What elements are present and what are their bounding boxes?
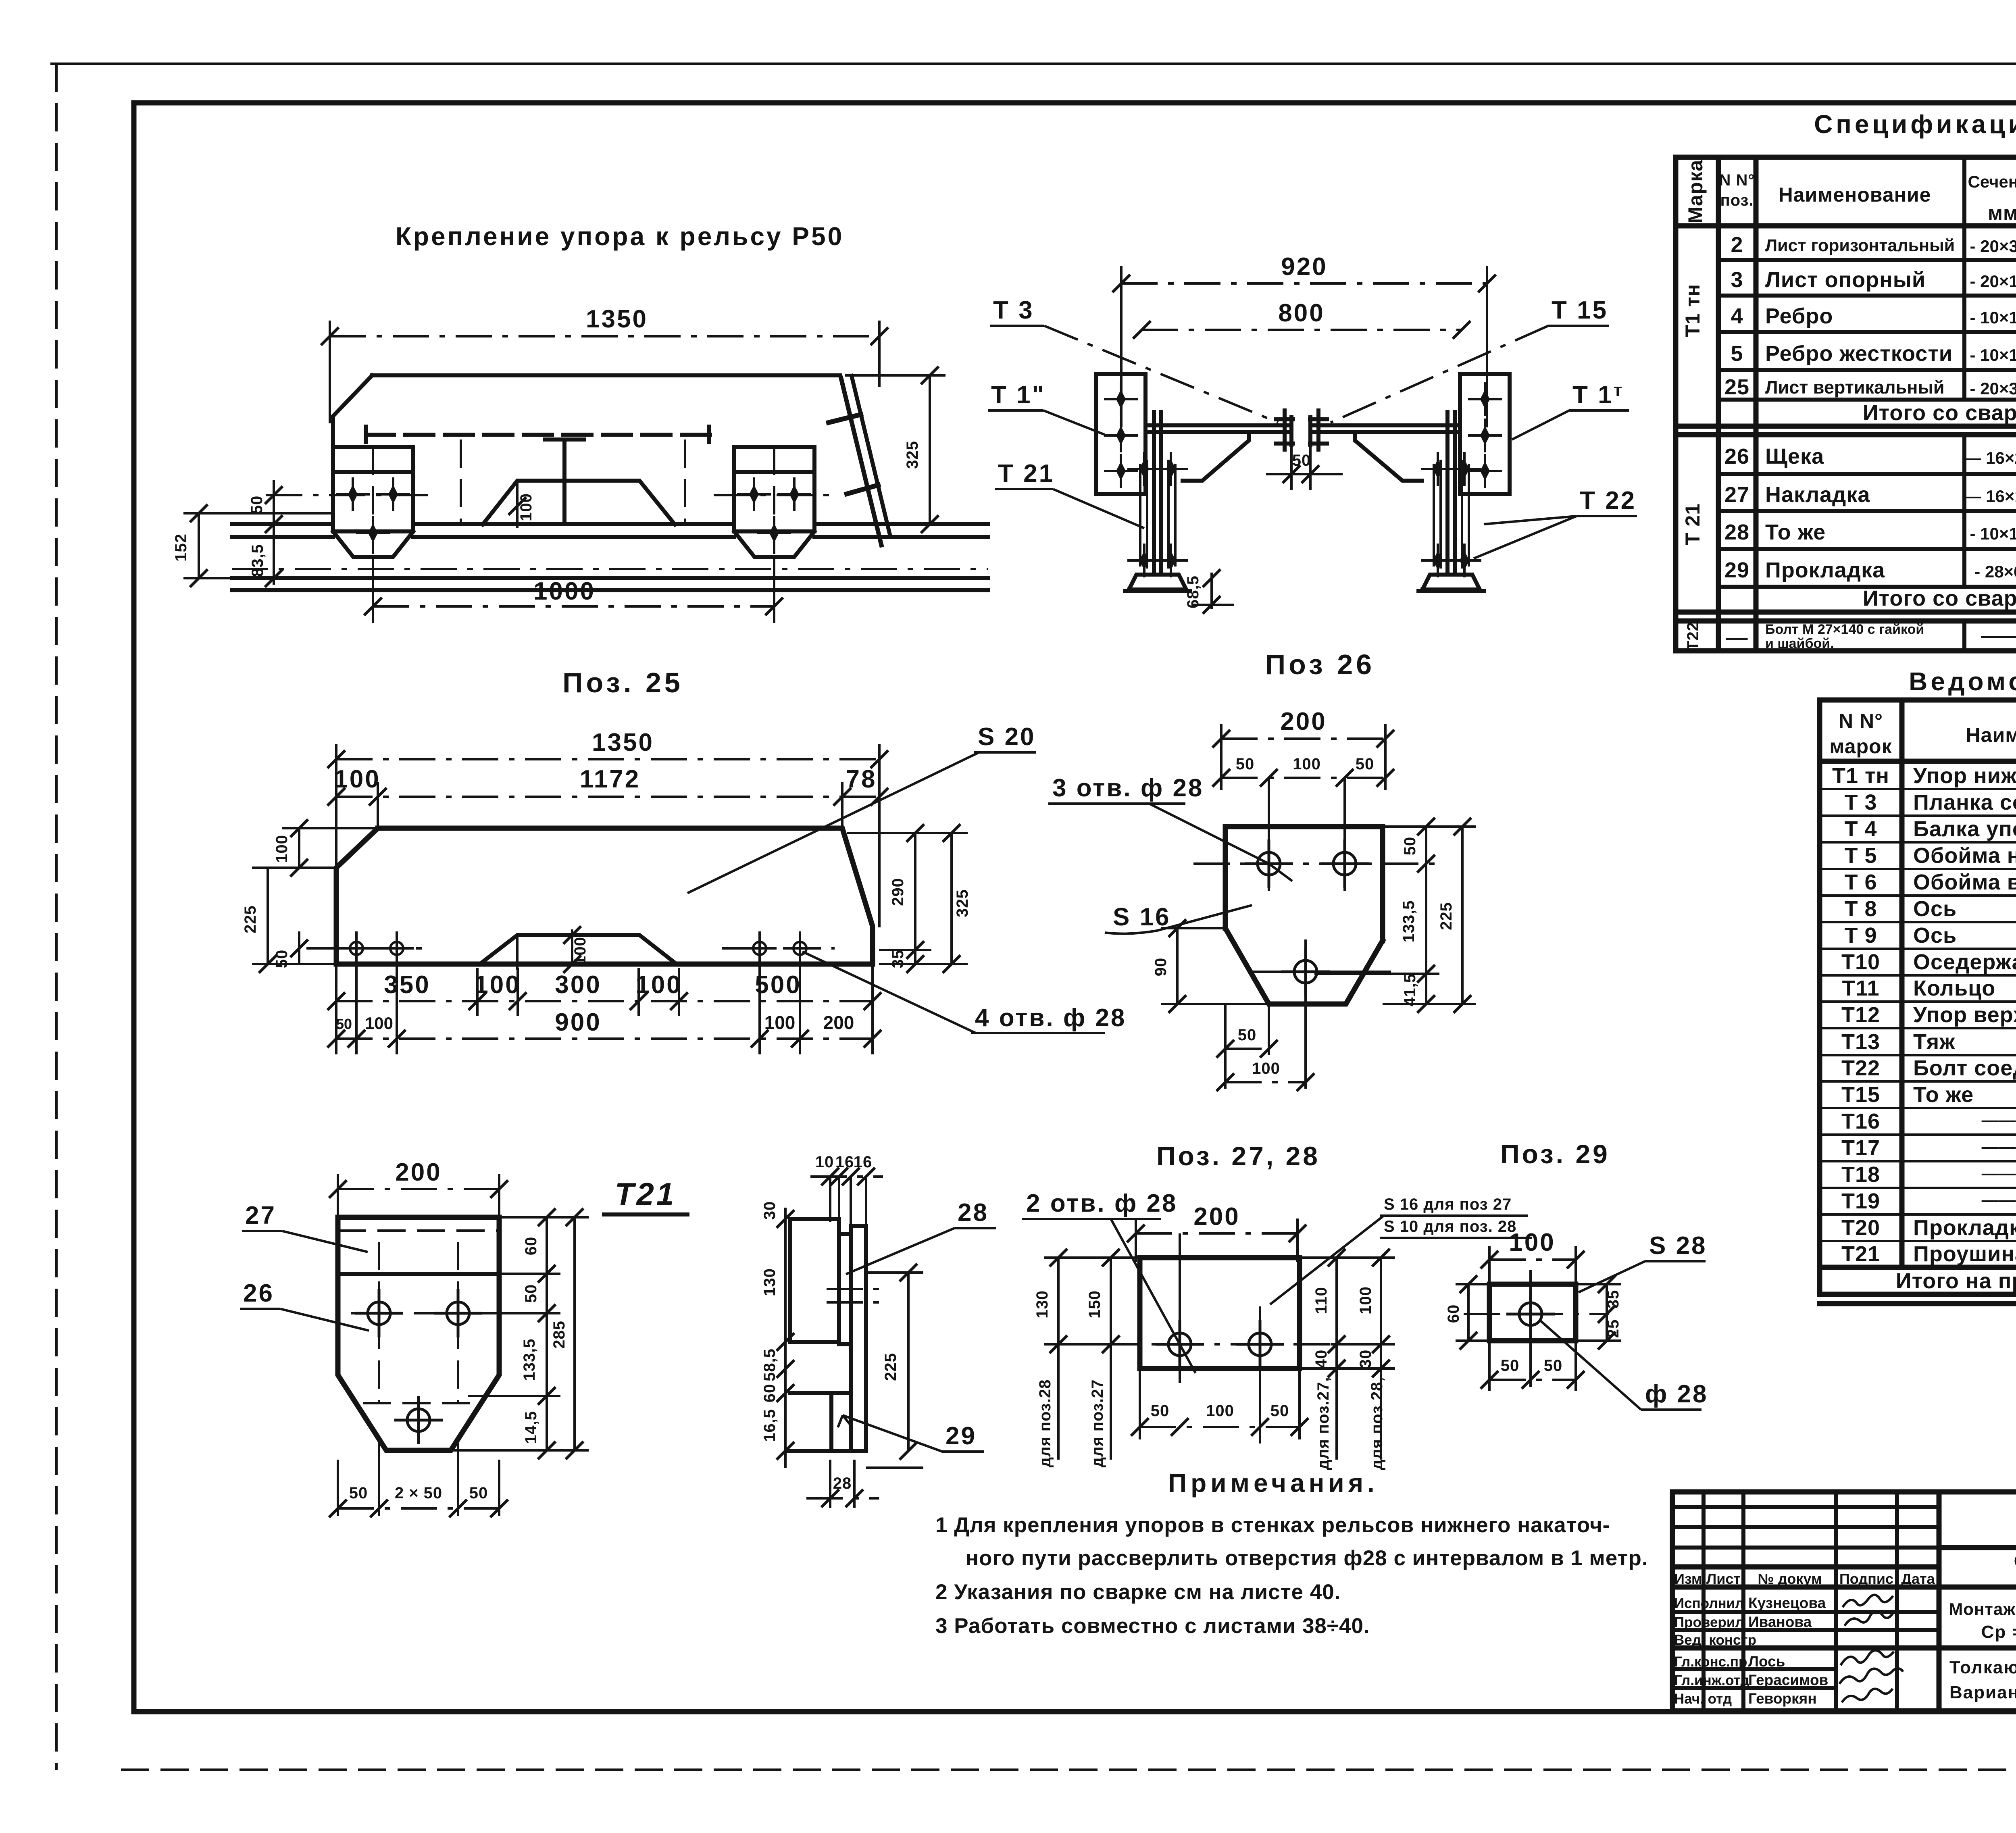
svg-text:225: 225 xyxy=(882,1353,900,1381)
svg-text:100: 100 xyxy=(474,971,521,999)
svg-text:Т 8: Т 8 xyxy=(1844,897,1877,921)
svg-text:Лось: Лось xyxy=(1748,1653,1785,1670)
leaders 27 26 xyxy=(240,1202,369,1331)
svg-text:Тяж: Тяж xyxy=(1913,1030,1955,1054)
svg-text:——— н ———: ——— н ——— xyxy=(1982,1190,2016,1209)
svg-text:Прокладка: Прокладка xyxy=(1765,558,1885,582)
left dim 90 xyxy=(1152,919,1269,1013)
svg-text:Ось: Ось xyxy=(1913,923,1957,948)
svg-text:— 16×150: — 16×150 xyxy=(1964,487,2016,506)
svg-text:Т 21: Т 21 xyxy=(1681,503,1704,545)
svg-text:Т 21: Т 21 xyxy=(998,460,1054,487)
svg-text:Накладка: Накладка xyxy=(1765,483,1870,507)
svg-text:800: 800 xyxy=(1278,299,1325,327)
svg-text:S 20: S 20 xyxy=(978,723,1036,751)
svg-text:Упор верхний: Упор верхний xyxy=(1913,1003,2016,1027)
dim 100 1172 78 xyxy=(327,765,888,831)
svg-text:30: 30 xyxy=(1357,1350,1375,1369)
svg-text:Т 4: Т 4 xyxy=(1844,817,1877,841)
svg-text:900: 900 xyxy=(555,1008,601,1036)
dim 920 xyxy=(1112,253,1496,427)
S20 label xyxy=(687,723,1036,893)
svg-text:28: 28 xyxy=(958,1199,989,1227)
right rail assembly xyxy=(1418,412,1484,591)
svg-text:Т20: Т20 xyxy=(1841,1216,1880,1240)
svg-text:Т 3: Т 3 xyxy=(993,296,1034,324)
svg-text:100: 100 xyxy=(334,765,380,793)
svg-text:Геворкян: Геворкян xyxy=(1748,1690,1817,1707)
svg-text:1 Для крепления упоров в стен: 1 Для крепления упоров в стенках рельсов… xyxy=(935,1513,1610,1537)
svg-text:Гл.инж.отд: Гл.инж.отд xyxy=(1674,1673,1749,1688)
svg-text:для поз.27,: для поз.27, xyxy=(1314,1377,1332,1470)
svg-text:3 отв. ф 28: 3 отв. ф 28 xyxy=(1052,774,1204,802)
drawing E: T21 xyxy=(240,1153,996,1517)
nakladka 27 side xyxy=(790,1219,839,1342)
svg-text:и шайбой.: и шайбой. xyxy=(1765,636,1834,651)
svg-text:Вед. констр: Вед. констр xyxy=(1674,1632,1756,1648)
dim 1350 xyxy=(327,729,888,927)
svg-text:83,5: 83,5 xyxy=(249,544,267,577)
svg-text:26: 26 xyxy=(1724,444,1749,469)
svg-text:мм: мм xyxy=(1988,202,2016,224)
svg-text:Т1 тн: Т1 тн xyxy=(1832,764,1889,788)
svg-text:—: — xyxy=(1726,626,1748,650)
drawing B: cross section xyxy=(0,0,0,0)
left dims xyxy=(784,1208,787,1468)
svg-text:Кузнецова: Кузнецова xyxy=(1748,1595,1826,1611)
svg-text:Лист опорный: Лист опорный xyxy=(1765,268,1926,292)
svg-text:Наименование: Наименование xyxy=(1966,724,2016,746)
svg-text:68,5: 68,5 xyxy=(1184,575,1202,608)
svg-text:S 10 для поз. 28: S 10 для поз. 28 xyxy=(1384,1218,1516,1235)
poz29 xyxy=(1445,1229,1708,1410)
notes xyxy=(935,1468,1648,1638)
tie plate T3 xyxy=(1145,425,1460,432)
svg-text:- 20×325: - 20×325 xyxy=(1970,379,2016,398)
svg-text:Т 6: Т 6 xyxy=(1844,870,1877,894)
left dims xyxy=(242,819,378,973)
spec table header text xyxy=(1684,160,2016,224)
svg-text:Планка соединительная: Планка соединительная xyxy=(1913,790,2016,814)
dim 50 center xyxy=(1266,452,1343,483)
svg-text:Лист горизонтальный: Лист горизонтальный xyxy=(1765,236,1955,255)
svg-text:50: 50 xyxy=(349,1484,368,1502)
svg-text:S 28: S 28 xyxy=(1649,1232,1707,1260)
svg-text:Ребро жесткости: Ребро жесткости xyxy=(1765,342,1953,366)
225 dim xyxy=(907,1273,910,1451)
prokladka 28 strip xyxy=(839,1234,851,1344)
svg-text:152: 152 xyxy=(172,533,190,562)
labels with leaders xyxy=(988,296,1637,558)
svg-text:- 10×190: - 10×190 xyxy=(1970,346,2016,365)
svg-text:Т 15: Т 15 xyxy=(1552,296,1608,324)
svg-text:поз.: поз. xyxy=(1720,192,1754,209)
svg-text:78: 78 xyxy=(846,765,877,793)
vedomost header xyxy=(1829,708,2016,759)
right dims xyxy=(1300,1249,1395,1470)
spec table grid xyxy=(1676,157,2016,651)
4 otv label xyxy=(802,952,1126,1033)
svg-text:- 20×100: - 20×100 xyxy=(1970,272,2016,291)
svg-text:Т21: Т21 xyxy=(1841,1242,1880,1266)
holes on bottom xyxy=(339,931,373,965)
svg-text:Т 22: Т 22 xyxy=(1580,487,1636,514)
svg-text:Нач. отд: Нач. отд xyxy=(1674,1691,1732,1707)
svg-text:Ребро: Ребро xyxy=(1765,304,1833,328)
svg-text:133,5: 133,5 xyxy=(521,1338,538,1381)
rail bottom lines xyxy=(232,568,988,570)
right clamp T1 xyxy=(734,447,814,557)
left dims xyxy=(1033,1249,1140,1467)
svg-text:50: 50 xyxy=(1501,1357,1520,1375)
svg-text:——— н ———: ——— н ——— xyxy=(1982,1137,2016,1156)
svg-text:350: 350 xyxy=(384,971,430,999)
title block grid xyxy=(1672,1492,2016,1711)
svg-text:Т21: Т21 xyxy=(615,1176,676,1212)
svg-text:Прокладка: Прокладка xyxy=(1913,1216,2016,1240)
dim 200 xyxy=(1212,708,1394,790)
svg-text:Исполнил: Исполнил xyxy=(1674,1596,1744,1611)
left plate T1n xyxy=(1096,374,1145,494)
svg-text:40: 40 xyxy=(1312,1350,1330,1369)
svg-text:для поз.28,: для поз.28, xyxy=(1368,1377,1386,1470)
upor body outline xyxy=(333,375,840,447)
svg-text:41,5: 41,5 xyxy=(1401,973,1419,1006)
right dims 290 325 35 xyxy=(847,824,971,973)
plate xyxy=(1140,1258,1300,1369)
svg-text:4 отв. ф 28: 4 отв. ф 28 xyxy=(975,1004,1126,1032)
svg-text:100: 100 xyxy=(1293,755,1321,773)
svg-text:Т1 тн: Т1 тн xyxy=(1681,284,1704,337)
bottom dims xyxy=(1131,1369,1308,1439)
svg-text:——— н ———: ——— н ——— xyxy=(1982,1110,2016,1129)
svg-text:Т 5: Т 5 xyxy=(1844,844,1877,868)
svg-text:35: 35 xyxy=(889,950,907,969)
front plate xyxy=(338,1217,499,1450)
svg-text:50: 50 xyxy=(522,1284,540,1303)
svg-text:285: 285 xyxy=(550,1321,568,1349)
dashed plate T3 xyxy=(366,427,710,523)
svg-text:1350: 1350 xyxy=(586,305,648,333)
svg-text:марок: марок xyxy=(1829,735,1892,758)
svg-text:Изм: Изм xyxy=(1674,1571,1702,1587)
svg-text:——: —— xyxy=(1981,624,2016,648)
svg-text:29: 29 xyxy=(946,1422,977,1450)
svg-text:Дата: Дата xyxy=(1901,1571,1935,1587)
svg-text:Т 9: Т 9 xyxy=(1844,923,1877,948)
svg-text:27: 27 xyxy=(1724,483,1749,507)
dim 50 100 50 xyxy=(1212,755,1394,787)
svg-text:50: 50 xyxy=(1151,1402,1170,1420)
drawing F: poz27-29 xyxy=(1022,1139,1708,1470)
svg-text:100: 100 xyxy=(517,493,535,521)
svg-text:28: 28 xyxy=(1724,520,1749,544)
svg-text:50: 50 xyxy=(1292,452,1311,469)
center gap walls xyxy=(1291,417,1310,445)
svg-text:Сталежелезобетонные пролетные: Сталежелезобетонные пролетные xyxy=(2014,1552,2016,1571)
svg-text:Поз. 29: Поз. 29 xyxy=(1500,1139,1610,1169)
svg-text:Толкающие обустройства: Толкающие обустройства xyxy=(1949,1658,2016,1677)
svg-text:25: 25 xyxy=(1604,1319,1622,1338)
svg-text:Монтаж пролетных строений: Монтаж пролетных строений xyxy=(1949,1600,2016,1618)
svg-text:25: 25 xyxy=(1724,375,1749,399)
side view xyxy=(761,1153,996,1508)
svg-text:S 16 для поз 27: S 16 для поз 27 xyxy=(1384,1196,1512,1213)
svg-text:100: 100 xyxy=(365,1014,393,1033)
svg-text:2 отв. ф 28: 2 отв. ф 28 xyxy=(1026,1189,1177,1217)
svg-text:5: 5 xyxy=(1731,342,1743,366)
prokladka 29 xyxy=(831,1393,851,1451)
svg-text:Подпис: Подпис xyxy=(1839,1571,1893,1587)
trapezoid inner dim 100 xyxy=(516,481,519,528)
trapezoid bump xyxy=(480,935,677,964)
plate outline xyxy=(1225,827,1383,1004)
svg-text:Упор нижний: Упор нижний xyxy=(1913,764,2016,788)
svg-text:Т17: Т17 xyxy=(1841,1136,1880,1160)
svg-text:Кольцо: Кольцо xyxy=(1913,976,1995,1000)
svg-text:50: 50 xyxy=(1356,755,1375,773)
svg-text:Сечение: Сечение xyxy=(1968,172,2016,191)
left rail assembly xyxy=(1125,412,1190,591)
diagonal brace xyxy=(829,376,890,545)
svg-text:Лист: Лист xyxy=(1706,1571,1741,1587)
svg-text:50: 50 xyxy=(1544,1357,1563,1375)
svg-text:Т22: Т22 xyxy=(1684,622,1702,651)
svg-text:Примечания.: Примечания. xyxy=(1168,1468,1379,1498)
svg-text:1172: 1172 xyxy=(580,765,641,793)
svg-text:16,5: 16,5 xyxy=(761,1409,779,1442)
svg-text:Щека: Щека xyxy=(1765,444,1824,469)
svg-text:60: 60 xyxy=(522,1237,540,1256)
bottom dim row B xyxy=(327,960,881,1054)
svg-text:Ведомость марок: Ведомость марок xyxy=(1909,667,2016,696)
vedomost table grid xyxy=(1820,700,2016,1304)
svg-text:50: 50 xyxy=(1401,837,1419,856)
dim 1000 bottom xyxy=(364,557,783,623)
trapezoid dim 100 xyxy=(517,926,589,973)
svg-text:Т15: Т15 xyxy=(1841,1083,1880,1107)
dim 800 xyxy=(1133,299,1470,339)
bolt axis dashed xyxy=(266,494,435,496)
bottom 28 dim xyxy=(829,1460,831,1508)
top dims 10 16 16 xyxy=(810,1175,883,1178)
svg-text:27: 27 xyxy=(245,1202,276,1229)
svg-text:200: 200 xyxy=(1193,1203,1240,1231)
svg-text:Обойма верхняя: Обойма верхняя xyxy=(1913,870,2016,894)
svg-text:ного пути рассверлить отверсти: ного пути рассверлить отверстия ф28 с ин… xyxy=(966,1546,1648,1570)
svg-text:200: 200 xyxy=(1280,708,1327,735)
svg-text:— 16×200: — 16×200 xyxy=(1964,448,2016,467)
svg-text:26: 26 xyxy=(243,1279,274,1307)
svg-text:Т22: Т22 xyxy=(1841,1056,1880,1080)
svg-text:Т 1": Т 1" xyxy=(991,381,1045,409)
svg-text:Ось: Ось xyxy=(1913,897,1957,921)
svg-text:2: 2 xyxy=(1731,233,1743,257)
svg-text:2 Указания по сварке см на ли: 2 Указания по сварке см на листе 40. xyxy=(935,1580,1341,1604)
svg-text:4: 4 xyxy=(1731,304,1743,328)
title block texts xyxy=(1674,1499,2016,1707)
svg-text:16: 16 xyxy=(835,1153,854,1171)
svg-text:225: 225 xyxy=(242,905,259,933)
svg-text:Болт соединительный: Болт соединительный xyxy=(1913,1056,2016,1080)
svg-text:200: 200 xyxy=(823,1012,854,1033)
svg-text:16: 16 xyxy=(854,1153,873,1171)
svg-text:110: 110 xyxy=(1312,1287,1330,1314)
svg-text:ф 28: ф 28 xyxy=(1645,1380,1708,1408)
svg-text:100: 100 xyxy=(571,937,589,965)
svg-text:100: 100 xyxy=(764,1012,796,1033)
svg-text:14,5: 14,5 xyxy=(522,1411,540,1444)
front bottom dims xyxy=(329,1435,508,1517)
svg-text:90: 90 xyxy=(1152,958,1170,977)
S16 label xyxy=(1105,903,1252,934)
svg-text:58,5: 58,5 xyxy=(761,1348,779,1381)
dim 200 xyxy=(1127,1203,1306,1262)
scheka plate 26 side xyxy=(851,1226,866,1451)
svg-text:- 10×130: - 10×130 xyxy=(1970,524,2016,543)
dim 50 / 83.5 left xyxy=(248,480,283,587)
svg-text:Вариант закрепления упора.: Вариант закрепления упора. xyxy=(1949,1683,2016,1702)
dim 325 right xyxy=(845,367,946,533)
bottom dims xyxy=(1216,1004,1314,1091)
svg-text:50: 50 xyxy=(1238,1026,1257,1044)
svg-text:10: 10 xyxy=(815,1153,834,1171)
svg-text:50: 50 xyxy=(248,496,266,514)
rail top lines xyxy=(232,524,988,537)
svg-text:Герасимов: Герасимов xyxy=(1748,1672,1828,1688)
3 otv label xyxy=(1048,774,1292,881)
left clamp T1 xyxy=(333,447,413,557)
svg-text:100: 100 xyxy=(635,971,682,999)
svg-text:Оседержатель: Оседержатель xyxy=(1913,950,2016,974)
svg-text:Т16: Т16 xyxy=(1841,1109,1880,1133)
svg-text:150: 150 xyxy=(1086,1290,1104,1319)
svg-text:- 10×100: - 10×100 xyxy=(1970,308,2016,327)
svg-text:325: 325 xyxy=(954,889,971,917)
central trapezoid xyxy=(483,481,675,525)
bottom dim row A xyxy=(327,968,881,1016)
svg-text:Итого на пролетное строение:: Итого на пролетное строение: xyxy=(1896,1269,2016,1293)
svg-text:Т18: Т18 xyxy=(1841,1162,1880,1187)
dim 152 left xyxy=(172,504,335,587)
svg-text:100: 100 xyxy=(1509,1229,1555,1256)
svg-text:100: 100 xyxy=(273,835,291,863)
svg-text:То же: То же xyxy=(1913,1083,1974,1107)
svg-text:N N°: N N° xyxy=(1719,171,1755,189)
svg-text:Т13: Т13 xyxy=(1841,1030,1880,1054)
svg-text:- 20×365: - 20×365 xyxy=(1970,237,2016,256)
svg-text:Наименование: Наименование xyxy=(1779,183,1931,206)
svg-text:29: 29 xyxy=(1724,558,1749,582)
svg-text:——— н ———: ——— н ——— xyxy=(1982,1164,2016,1183)
front right dims xyxy=(451,1208,589,1459)
drawing D: poz26 xyxy=(0,0,0,0)
drawing C: poz25 xyxy=(242,723,1126,1054)
svg-text:325: 325 xyxy=(904,441,921,469)
svg-text:50: 50 xyxy=(1236,755,1255,773)
svg-text:225: 225 xyxy=(1437,902,1455,930)
S16/S10 label xyxy=(1270,1196,1532,1304)
front view dim 200 xyxy=(329,1158,508,1222)
holes xyxy=(1245,839,1293,888)
drawing D: poz26 xyxy=(1048,708,1476,1091)
svg-text:1000: 1000 xyxy=(533,577,596,605)
svg-text:Т19: Т19 xyxy=(1841,1189,1880,1213)
spec table marka labels xyxy=(1681,284,1704,651)
svg-text:1350: 1350 xyxy=(592,729,654,756)
svg-text:100: 100 xyxy=(1357,1286,1375,1314)
svg-text:200: 200 xyxy=(395,1158,442,1186)
svg-text:Итого со сварными швами:: Итого со сварными швами: xyxy=(1863,586,2016,610)
vedomost rows xyxy=(1832,764,2016,1293)
svg-text:Крепление упора к рельсу: Крепление упора к рельсу Р50 xyxy=(396,222,844,251)
svg-text:2 × 50: 2 × 50 xyxy=(395,1484,442,1502)
right dims xyxy=(1314,818,1476,1013)
dim 68.5 xyxy=(1184,569,1234,614)
spec table rows xyxy=(1724,225,2016,651)
svg-text:50: 50 xyxy=(469,1484,488,1502)
svg-text:50: 50 xyxy=(1270,1402,1289,1420)
svg-text:Иванова: Иванова xyxy=(1748,1614,1812,1630)
svg-text:130: 130 xyxy=(761,1268,779,1296)
svg-text:Марка: Марка xyxy=(1684,160,1707,224)
svg-text:№ докум: № докум xyxy=(1758,1571,1822,1587)
svg-text:для поз.28: для поз.28 xyxy=(1036,1379,1054,1468)
svg-text:Т 3: Т 3 xyxy=(1844,790,1877,814)
dim 1350 top xyxy=(321,305,888,423)
svg-text:Проушина: Проушина xyxy=(1913,1242,2016,1266)
right plate T1t xyxy=(1460,374,1510,494)
drawing B: cross section xyxy=(988,253,1637,680)
svg-text:Спецификация металла: Спецификация металла xyxy=(1814,110,2016,139)
svg-text:N N°: N N° xyxy=(1839,710,1883,732)
svg-text:50: 50 xyxy=(336,1016,352,1032)
svg-text:133,5: 133,5 xyxy=(1400,900,1418,942)
svg-text:Поз 26: Поз 26 xyxy=(1265,649,1375,680)
center bolts xyxy=(1276,410,1327,450)
svg-text:S 16: S 16 xyxy=(1113,903,1171,931)
funnel slants xyxy=(1183,432,1249,481)
svg-text:Балка упорная: Балка упорная xyxy=(1913,817,2016,841)
svg-text:3: 3 xyxy=(1731,268,1743,292)
2 otv label xyxy=(1022,1189,1195,1373)
svg-text:Лист вертикальный: Лист вертикальный xyxy=(1765,377,1945,398)
svg-text:28: 28 xyxy=(833,1475,852,1492)
svg-text:60: 60 xyxy=(761,1384,779,1403)
svg-text:Ср = 63 + 2×84 + 63 м: Ср = 63 + 2×84 + 63 м xyxy=(1981,1622,2016,1642)
plate outline xyxy=(336,828,873,964)
center T-stiffener xyxy=(545,440,584,523)
svg-text:100: 100 xyxy=(1252,1060,1280,1077)
svg-text:Проверил: Проверил xyxy=(1674,1614,1744,1630)
svg-text:Т12: Т12 xyxy=(1841,1003,1880,1027)
svg-text:130: 130 xyxy=(1033,1290,1051,1319)
svg-text:- 28×60: - 28×60 xyxy=(1974,562,2016,581)
svg-text:500: 500 xyxy=(755,971,801,999)
svg-text:50: 50 xyxy=(273,950,291,969)
svg-text:Обойма нижняя: Обойма нижняя xyxy=(1913,844,2016,868)
signatures xyxy=(1839,1595,1903,1702)
svg-text:Т10: Т10 xyxy=(1841,950,1880,974)
svg-text:Итого со сварными швами:: Итого со сварными швами: xyxy=(1863,401,2016,425)
svg-text:35: 35 xyxy=(1604,1290,1622,1309)
svg-text:60: 60 xyxy=(1445,1304,1462,1323)
svg-text:Поз. 25: Поз. 25 xyxy=(562,667,683,698)
svg-text:Т11: Т11 xyxy=(1842,976,1879,1000)
svg-text:920: 920 xyxy=(1281,253,1327,281)
svg-text:100: 100 xyxy=(1206,1402,1234,1420)
svg-text:3 Работать совместно с листам: 3 Работать совместно с листами 38÷40. xyxy=(935,1614,1370,1638)
